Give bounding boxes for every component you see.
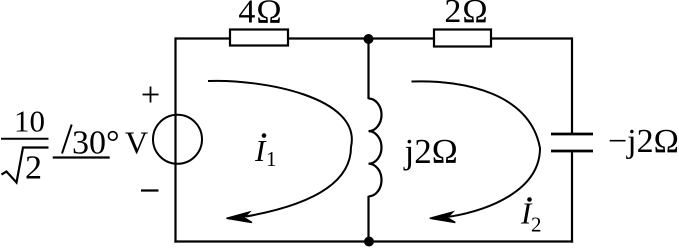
wire: right rail lower xyxy=(571,151,573,243)
node: top junction dot xyxy=(364,34,374,44)
node: bottom junction dot xyxy=(364,237,374,247)
svg-text:V: V xyxy=(125,125,148,161)
inductor L1 coil xyxy=(369,99,382,197)
wire: left rail xyxy=(174,37,176,242)
source V1 value fraction bar xyxy=(1,138,49,140)
mesh current I2 arrowhead xyxy=(430,212,456,223)
svg-text:1: 1 xyxy=(266,147,277,171)
capacitor C1 bottom plate xyxy=(551,150,593,153)
source V1 phase angle underline xyxy=(53,156,110,158)
wire: middle branch upper xyxy=(367,39,369,100)
svg-text:−j2Ω: −j2Ω xyxy=(608,123,679,160)
svg-text:2: 2 xyxy=(25,150,42,187)
capacitor C1 top plate xyxy=(551,133,593,136)
svg-text:j2Ω: j2Ω xyxy=(403,132,458,171)
wire: bottom rail xyxy=(174,240,573,242)
mesh current I1 arc xyxy=(208,81,352,217)
wire: top rail xyxy=(176,37,573,39)
resistor R2 body xyxy=(434,30,491,47)
mesh current I1 label dot xyxy=(262,133,267,138)
source V1 minus sign xyxy=(141,189,159,191)
resistor R1 body xyxy=(230,30,288,46)
wire: middle branch lower xyxy=(367,196,369,242)
mesh current I1 arrowhead xyxy=(227,212,253,223)
source V1 value radical sign xyxy=(2,148,49,183)
mesh current I2 arc xyxy=(412,81,541,216)
wire: right rail upper xyxy=(571,37,573,134)
svg-text:10: 10 xyxy=(14,104,45,139)
source V1 circle xyxy=(153,115,202,164)
source V1 plus sign xyxy=(143,87,159,103)
source V1 phase angle slash xyxy=(62,125,72,154)
svg-text:4Ω: 4Ω xyxy=(238,0,282,31)
svg-text:2: 2 xyxy=(531,213,542,237)
mesh current I2 label dot xyxy=(527,197,532,202)
svg-text:2Ω: 2Ω xyxy=(444,0,488,30)
svg-text:30°: 30° xyxy=(72,125,120,162)
